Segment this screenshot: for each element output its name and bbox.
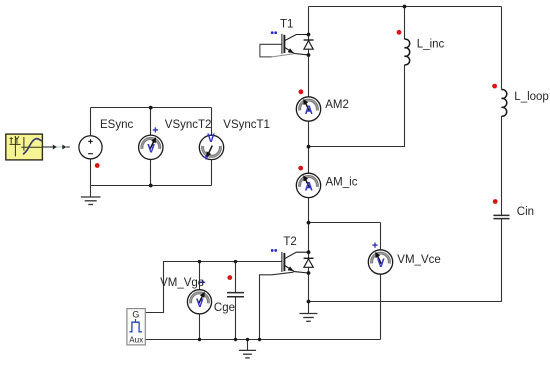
svg-text:V: V (377, 258, 385, 270)
svg-text:VM_Vge: VM_Vge (160, 277, 204, 289)
svg-text:Cge: Cge (214, 302, 235, 314)
svg-text:A: A (305, 182, 313, 194)
svg-text:V: V (196, 298, 204, 310)
svg-text:L_inc: L_inc (417, 39, 445, 51)
svg-text:AM2: AM2 (325, 99, 349, 111)
svg-text:VSyncT1: VSyncT1 (223, 119, 270, 131)
svg-text:T1: T1 (280, 18, 293, 30)
svg-text:Aux: Aux (129, 335, 143, 344)
svg-text:L_loop: L_loop (514, 91, 549, 103)
svg-text:V: V (147, 144, 155, 156)
svg-text:G: G (132, 310, 139, 320)
svg-text:A: A (305, 105, 313, 117)
svg-text:VM_Vce: VM_Vce (397, 254, 440, 266)
svg-text:VSyncT2: VSyncT2 (165, 119, 212, 131)
svg-text:T2: T2 (283, 236, 296, 248)
svg-text:ESync: ESync (100, 119, 133, 131)
svg-text:V: V (207, 133, 215, 145)
svg-text:Cin: Cin (517, 206, 534, 218)
svg-text:AM_ic: AM_ic (326, 177, 358, 189)
